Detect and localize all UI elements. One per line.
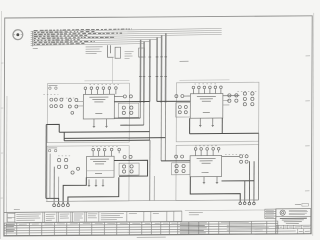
floating label above UR [180,60,189,62]
rev strip line [185,209,265,212]
table row1 faint texts [19,223,177,224]
zone ticks left [0,63,3,198]
enclosure corner terminals LL [48,148,57,152]
T2 left pair [175,94,191,97]
UR header line [179,79,229,81]
T4 left group [175,164,185,172]
title block [276,209,311,234]
LL ground circle 2 [57,204,60,207]
wire v65 [63,132,65,141]
wire v149 lower [153,176,155,201]
table bottom dark [4,234,278,236]
ground circle 3 [248,202,251,205]
transformer T1 box [83,94,114,119]
T3 right group [122,165,133,173]
T2 text [197,96,216,112]
LL ground circle 3 [62,204,65,207]
legend mark [139,48,145,57]
bus left note [33,47,38,49]
wire table [4,221,278,236]
T1 left terminal group B [68,98,78,114]
T2 right group B [228,94,238,103]
UR enclosure [176,82,259,142]
wire UL to drop [114,100,149,102]
wire h137.8 [64,137,165,140]
T1 right pair [114,95,132,98]
wire UR stem1 down [189,118,191,134]
zone text dc [14,208,20,210]
wire v150 down [149,140,151,200]
T2 left sub-box [176,103,191,117]
T2 top terminals [192,86,222,94]
T1 right sub-box [118,103,139,117]
LL ground circle 1 [53,204,56,207]
wire LL box BR stair [68,177,119,204]
title divider [276,215,311,217]
wire left v47 [45,125,47,199]
left mini boxes [7,213,15,222]
T3 inner line [87,170,115,172]
wire LL left riser 1 [53,167,55,204]
wire LL box BL stair [63,177,86,203]
T1 right group [122,106,133,114]
drop wire number labels [139,57,167,77]
parts strip [15,211,182,222]
T3 bottom stems [88,179,104,187]
T4 top terminals [194,147,220,155]
wire drop to UR [157,100,191,102]
ground stem 4 [253,161,255,202]
wire v259 right [257,133,259,200]
legend stem [111,57,113,83]
wire UL right y125 [120,124,144,126]
bus left vertical [32,31,34,46]
T2 right stub [223,95,240,97]
T1 top terminals [84,87,117,95]
legend text right [125,52,134,59]
mid strip text [189,213,203,215]
wire LL v51 [49,154,51,199]
transformer T3 box [87,156,115,177]
wire LL left corner [46,198,59,204]
T3 top terminals [92,148,121,156]
T2 right stubs [223,100,230,105]
T3 right sub-box [119,163,139,175]
table text column [6,223,207,234]
terminal labels [43,84,257,156]
logo text [289,210,308,214]
wire T4 right h181.5 [222,180,255,182]
wire h134 UR [190,132,259,134]
small rev table [265,209,276,218]
ground stem 3 [248,161,250,202]
border inner left line [5,96,8,236]
zone ticks right [305,56,310,191]
T1 left terminal group A [50,98,63,108]
registration mark [13,30,23,40]
T1 text [89,97,108,113]
sheet note above title [302,203,309,206]
wire LR stem1 to grounds [190,176,240,202]
T4 right group [222,155,249,164]
ground circle 2 [243,202,246,205]
wire UL v60 [46,124,59,132]
page edge right [312,13,315,236]
ground circle 1 [239,202,242,205]
T2 left group [178,106,187,114]
legend note text [86,47,103,54]
parts strip top line [4,211,182,212]
wire h140.2 [64,139,150,142]
wire LL riser2 [58,177,60,199]
wire UL bottom h131 [59,131,149,134]
wire LL right loop [114,160,148,176]
strip cell texts [16,213,159,220]
caption under border [137,236,166,238]
legend bracket symbol [108,45,114,57]
enclosure corner terminals UL [48,85,57,89]
T3 text [90,159,109,173]
logo [280,210,285,215]
T4 text [197,158,216,172]
T3 left group [57,158,79,174]
bus lines [31,28,222,45]
transformer T4 box [190,155,222,176]
T4 bottom stems [203,176,218,184]
bus drops [140,33,166,103]
long thin line y200.7 [46,200,259,201]
bus wire labels [34,29,132,44]
T1 left stubs [77,101,84,106]
company name [280,217,307,219]
wire UL right y118 [114,117,140,119]
LL enclosure [47,146,129,202]
UL enclosure [47,83,129,143]
title cells [276,225,311,234]
LR enclosure [176,145,259,201]
T2 right group A [243,92,254,106]
ground stem 2 [244,181,246,202]
LL ground circle 4 [66,204,69,207]
wire h161 to T4 [161,160,190,162]
T4 left sub-box [172,163,191,175]
legend small box [115,47,121,58]
T2 bottom stems [199,118,214,127]
T1 bottom stems [93,119,108,128]
UL header line [84,80,129,82]
zone label [8,217,12,219]
ground circle 4 [253,202,256,205]
T3 right pair [123,155,132,158]
transformer T2 box [190,93,223,118]
wire UR box corner down [221,118,223,133]
T4 left pair [175,155,184,158]
